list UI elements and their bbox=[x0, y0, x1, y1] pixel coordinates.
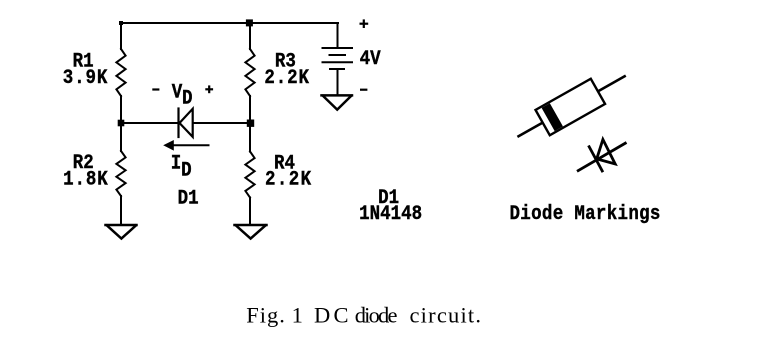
svg-text:Diode Markings: Diode Markings bbox=[510, 202, 661, 225]
svg-text:1N4148: 1N4148 bbox=[359, 202, 422, 225]
svg-text:1: 1 bbox=[292, 302, 303, 327]
svg-text:D: D bbox=[182, 86, 193, 109]
svg-text:diode: diode bbox=[355, 302, 398, 327]
svg-text:I: I bbox=[171, 151, 182, 174]
svg-text:Fig.: Fig. bbox=[246, 302, 286, 327]
svg-text:1.8K: 1.8K bbox=[63, 168, 108, 191]
svg-text:D: D bbox=[181, 159, 192, 182]
svg-text:3.9K: 3.9K bbox=[63, 66, 108, 89]
svg-text:2.2K: 2.2K bbox=[265, 168, 313, 191]
svg-text:circuit.: circuit. bbox=[410, 302, 483, 327]
svg-text:DC: DC bbox=[314, 302, 352, 327]
svg-text:D1: D1 bbox=[178, 186, 199, 209]
svg-text:4V: 4V bbox=[360, 47, 382, 70]
svg-text:2.2K: 2.2K bbox=[264, 66, 309, 89]
